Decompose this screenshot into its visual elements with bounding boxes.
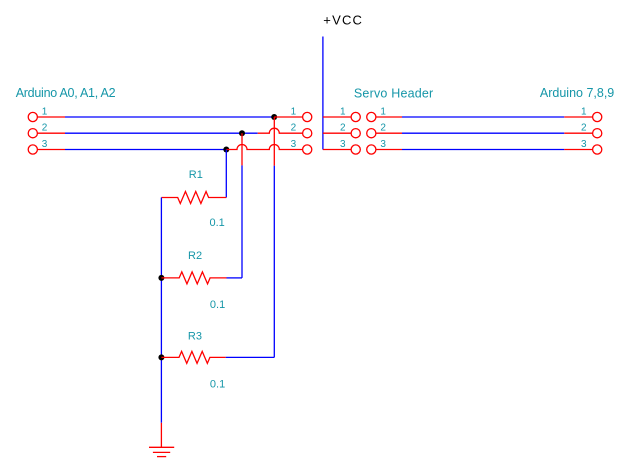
- servo header right pin 1 circle: [367, 112, 376, 121]
- servo header left pin 2 circle: [351, 129, 360, 138]
- servo header left pin 1 stub: [323, 116, 351, 118]
- svg-text:2: 2: [42, 123, 48, 134]
- connector J1 pin 1 stub: [37, 116, 65, 118]
- connector J1 pin 1 number: [42, 106, 48, 117]
- svg-text:1: 1: [380, 106, 386, 117]
- connector J3 pin 3 circle: [593, 145, 602, 154]
- servo header left pin 3 circle: [351, 145, 360, 154]
- resistor R1 label: [189, 169, 203, 181]
- svg-text:R1: R1: [189, 169, 203, 181]
- junction row2: [239, 130, 245, 136]
- connector J2 pin 3 number: [291, 139, 297, 150]
- junction R2 left: [158, 275, 164, 281]
- power label +VCC: [323, 13, 363, 28]
- servo header right pin 3 circle: [367, 145, 376, 154]
- servo header right pin 3 stub: [376, 149, 402, 151]
- svg-text:2: 2: [340, 123, 346, 134]
- servo header right pin 2 stub: [376, 132, 402, 134]
- net label Servo Header: [354, 87, 434, 101]
- svg-text:Servo Header: Servo Header: [354, 87, 434, 101]
- connector J1 pin 3 number: [42, 139, 48, 150]
- connector J3 pin 2 circle: [593, 129, 602, 138]
- net label Arduino 7,8,9: [540, 86, 614, 100]
- connector J3 pin 1 circle: [593, 112, 602, 121]
- resistor R1 value 0.1: [210, 217, 225, 229]
- resistor R1: [161, 192, 226, 204]
- svg-text:2: 2: [291, 123, 297, 134]
- servo header right pin 3 number: [380, 139, 386, 150]
- wire left vertical red to ground: [160, 423, 162, 448]
- svg-text:1: 1: [340, 106, 346, 117]
- connector J3 pin 2 stub: [564, 132, 592, 134]
- junction row1: [271, 114, 277, 120]
- resistor R3 value 0.1: [210, 378, 225, 390]
- connector J1 pin 2 circle: [28, 129, 37, 138]
- svg-text:3: 3: [291, 139, 297, 150]
- svg-text:1: 1: [291, 106, 297, 117]
- wire R3 right horizontal: [226, 356, 275, 358]
- ground: [149, 447, 174, 456]
- wire row3 left: [65, 149, 226, 151]
- servo header right pin 1 number: [380, 106, 386, 117]
- servo header right pin 2 circle: [367, 129, 376, 138]
- connector J3 pin 3 number: [581, 139, 587, 150]
- connector J2 pin 2 circle: [303, 129, 312, 138]
- wire R2 right horizontal: [227, 277, 243, 279]
- connector J3 pin 2 number: [581, 123, 587, 134]
- svg-text:1: 1: [581, 106, 587, 117]
- svg-text:+VCC: +VCC: [323, 13, 363, 28]
- svg-text:3: 3: [380, 139, 386, 150]
- svg-text:0.1: 0.1: [210, 378, 225, 390]
- servo header left pin 2 number: [340, 123, 346, 134]
- wire +VCC vertical: [322, 37, 324, 150]
- servo header left pin 2 stub: [323, 132, 351, 134]
- connector J1 pin 3 stub: [37, 149, 65, 151]
- svg-text:2: 2: [380, 123, 386, 134]
- connector J1 pin 2 number: [42, 123, 48, 134]
- resistor R2 label: [188, 250, 202, 262]
- junction R3 left: [158, 354, 164, 360]
- servo header left pin 3 stub: [323, 149, 351, 151]
- wire row2 left: [65, 132, 258, 134]
- servo header right pin 2 number: [380, 123, 386, 134]
- wire vertical from row2 junction red part: [241, 133, 243, 165]
- wire vertical from row1 junction blue part: [273, 166, 275, 358]
- resistor R3 label: [188, 330, 202, 342]
- servo header left pin 3 number: [340, 139, 346, 150]
- connector J1 pin 3 circle: [28, 145, 37, 154]
- junction row3: [223, 147, 229, 153]
- net label Arduino A0, A1, A2: [16, 86, 116, 100]
- resistor R2 value 0.1: [210, 299, 225, 311]
- connector J1 pin 2 stub: [37, 132, 65, 134]
- servo header left pin 1 circle: [351, 112, 360, 121]
- wire row1 right: [402, 116, 564, 118]
- svg-text:2: 2: [581, 123, 587, 134]
- svg-text:3: 3: [581, 139, 587, 150]
- servo header left pin 1 number: [340, 106, 346, 117]
- wire left vertical blue: [160, 198, 162, 423]
- svg-text:3: 3: [340, 139, 346, 150]
- pin lead row1 to J2: [274, 116, 302, 118]
- wire row3 right: [402, 149, 564, 151]
- connector J1 pin 1 circle: [28, 112, 37, 121]
- svg-text:Arduino 7,8,9: Arduino 7,8,9: [540, 86, 614, 100]
- wire row2 right: [402, 132, 564, 134]
- wire vertical from row1 junction red part: [273, 117, 275, 166]
- resistor R3: [161, 351, 225, 363]
- svg-text:1: 1: [42, 106, 48, 117]
- connector J2 pin 3 circle: [303, 145, 312, 154]
- connector J2 pin 1 number: [291, 106, 297, 117]
- connector J3 pin 1 stub: [564, 116, 592, 118]
- svg-text:3: 3: [42, 139, 48, 150]
- wire row1 left: [65, 116, 274, 118]
- svg-text:0.1: 0.1: [210, 217, 225, 229]
- svg-text:Arduino A0, A1, A2: Arduino A0, A1, A2: [16, 86, 116, 100]
- resistor R2: [161, 272, 226, 284]
- pin lead row2 to J2 with hop: [258, 128, 303, 133]
- wire vertical from row3 junction blue: [225, 150, 227, 198]
- pin lead row3 to J2 with hops: [226, 145, 302, 150]
- svg-text:R2: R2: [188, 250, 202, 262]
- connector J2 pin 2 number: [291, 123, 297, 134]
- wire vertical from row2 junction blue part: [241, 165, 243, 278]
- svg-text:R3: R3: [188, 330, 202, 342]
- connector J2 pin 1 circle: [303, 112, 312, 121]
- servo header right pin 1 stub: [376, 116, 402, 118]
- svg-text:0.1: 0.1: [210, 299, 225, 311]
- connector J3 pin 3 stub: [564, 149, 592, 151]
- connector J3 pin 1 number: [581, 106, 587, 117]
